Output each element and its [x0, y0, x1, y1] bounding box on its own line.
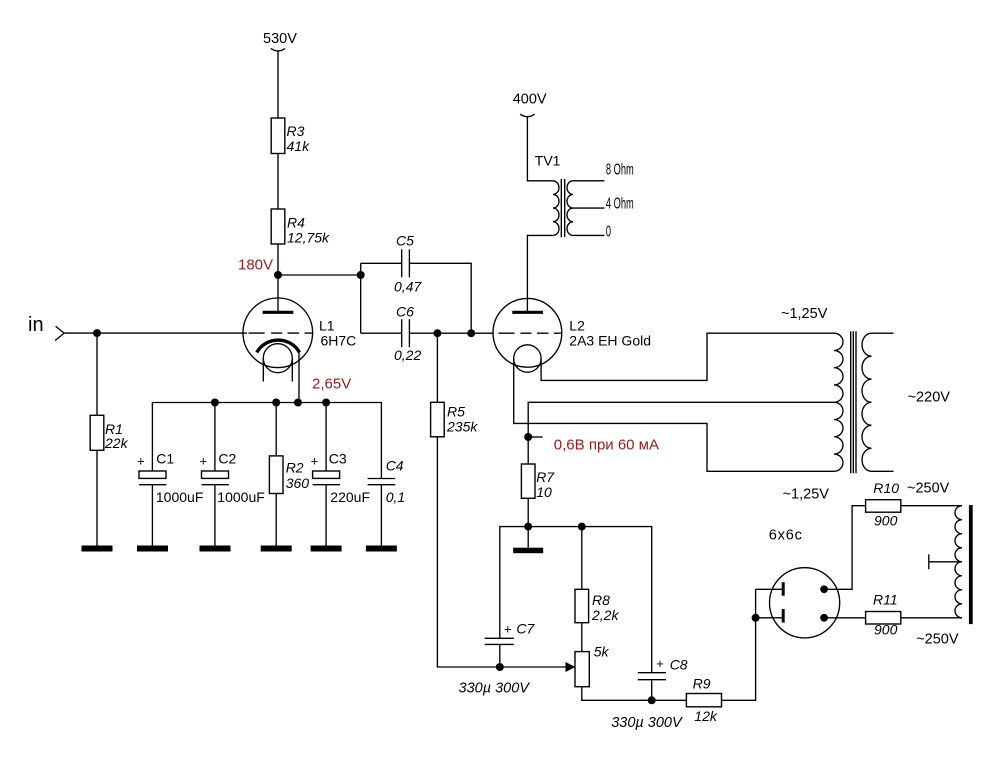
filament transformer primary winding: [862, 333, 872, 471]
svg-text:L2: L2: [569, 318, 585, 334]
svg-text:8 Ohm: 8 Ohm: [606, 160, 634, 178]
wire bottom diode left: [756, 617, 784, 619]
transformer TV1 core: [561, 179, 564, 237]
node C8 bottom: [648, 696, 656, 704]
svg-text:R9: R9: [693, 676, 711, 692]
svg-text:C4: C4: [386, 458, 404, 474]
filament transformer secondary winding: [834, 333, 843, 471]
resistor R5: [431, 402, 479, 437]
wire tap 0: [573, 234, 604, 236]
svg-text:~220V: ~220V: [908, 390, 951, 406]
node 180V junction: [274, 271, 282, 279]
wire node to R7: [527, 437, 529, 464]
wire R9 to rectifier node: [722, 589, 756, 700]
svg-text:5k: 5k: [594, 644, 610, 660]
svg-text:R7: R7: [536, 469, 555, 485]
capacitor C4: [368, 458, 406, 506]
capacitor C3: [311, 451, 370, 506]
ground R2: [261, 546, 292, 552]
wire R2 to ground: [275, 494, 277, 546]
input terminal in: [28, 314, 64, 341]
svg-text:6x6c: 6x6c: [769, 528, 803, 544]
wire primary bottom stub: [872, 470, 894, 472]
node R7 rail: [524, 523, 532, 531]
svg-text:+: +: [504, 622, 512, 637]
svg-text:+: +: [311, 454, 319, 469]
svg-text:400V: 400V: [513, 92, 547, 108]
svg-text:+: +: [137, 454, 145, 469]
wire R1 to ground: [96, 450, 98, 545]
center tap end bar: [928, 554, 930, 569]
svg-text:2,65V: 2,65V: [312, 376, 351, 393]
svg-text:2,2k: 2,2k: [591, 607, 619, 623]
svg-text:0,22: 0,22: [394, 347, 421, 363]
resistor R1: [90, 415, 128, 451]
svg-text:530V: 530V: [263, 31, 297, 47]
node R5 branch: [433, 329, 441, 337]
svg-text:330µ 300V: 330µ 300V: [611, 715, 683, 731]
wire 180V node to coupling caps: [278, 274, 361, 276]
wire center tap: [929, 561, 962, 563]
wire C3 to ground: [325, 485, 327, 546]
wire R7 to rail: [527, 498, 529, 526]
node at coupling cap branch: [357, 271, 365, 279]
ground C3: [311, 546, 342, 552]
node C5/C6 right rail junction: [467, 329, 475, 337]
wire center tap to R7 node: [528, 402, 835, 437]
svg-text:235k: 235k: [446, 419, 478, 435]
resistor R10: [866, 480, 901, 529]
wire R10 to winding top: [901, 505, 962, 507]
svg-text:0,6В при 60 мА: 0,6В при 60 мА: [554, 437, 659, 454]
capacitor C1: [137, 451, 203, 506]
svg-text:+: +: [200, 454, 208, 469]
wire R5 down to wiper line: [437, 437, 566, 667]
svg-text:2A3 EH Gold: 2A3 EH Gold: [569, 333, 651, 349]
svg-text:6H7C: 6H7C: [321, 333, 357, 349]
wire node label stub: [528, 436, 542, 438]
svg-text:in: in: [28, 314, 44, 336]
wire R4 to node 180V: [277, 244, 279, 275]
svg-text:~1,25V: ~1,25V: [783, 487, 830, 503]
wire bus to C2: [214, 403, 216, 472]
wire rail to R8: [581, 527, 583, 590]
wire 400V to TV1 primary: [527, 117, 553, 181]
node input / R1 junction: [93, 329, 101, 337]
wire cathode bus: [152, 403, 381, 479]
wire C6 rail left: [361, 332, 402, 334]
wiper arrowhead: [566, 662, 576, 672]
node R2 bus: [272, 399, 280, 407]
svg-text:R4: R4: [287, 215, 305, 231]
wire node to R5: [436, 333, 438, 402]
resistor R11: [866, 592, 901, 638]
resistor R3: [271, 118, 310, 154]
svg-text:R2: R2: [286, 460, 304, 476]
capacitor C8: [638, 656, 688, 680]
node C2 bus: [211, 399, 219, 407]
rectifier filament winding: [955, 506, 962, 618]
svg-text:12k: 12k: [694, 708, 718, 724]
svg-text:~250V: ~250V: [907, 481, 950, 497]
capacitor C2: [200, 451, 265, 506]
resistor R7: [521, 464, 555, 500]
rectifier tube 6x6c: [769, 528, 840, 638]
svg-text:1000uF: 1000uF: [217, 489, 264, 505]
svg-text:0,47: 0,47: [394, 279, 422, 295]
power terminal 400V: [513, 92, 547, 117]
wire R11 to winding bottom: [901, 617, 962, 619]
svg-text:330µ 300V: 330µ 300V: [459, 681, 531, 697]
svg-text:41k: 41k: [287, 138, 311, 154]
svg-text:R3: R3: [287, 123, 305, 139]
node rectifier left: [752, 614, 760, 622]
wire R8 to pot: [581, 623, 583, 652]
capacitor C5: [394, 233, 422, 295]
filament transformer core: [851, 331, 856, 473]
rectifier filament core: [969, 505, 973, 624]
svg-text:L1: L1: [319, 318, 335, 334]
svg-text:R10: R10: [873, 480, 899, 496]
power terminal 530V: [263, 31, 297, 51]
wire bias rail: [500, 527, 652, 673]
pin bottom diode right: [820, 614, 828, 622]
ground C2: [200, 546, 231, 552]
resistor R2: [269, 456, 309, 494]
wire primary top stub: [872, 332, 894, 334]
svg-text:C8: C8: [670, 657, 688, 673]
svg-text:360: 360: [286, 475, 310, 491]
wire L2 filament left leg: [514, 359, 834, 472]
wire TV1 primary bottom to L2 plate: [527, 235, 553, 312]
svg-text:R5: R5: [447, 404, 465, 420]
pin top diode right: [820, 585, 828, 593]
ground C4: [366, 546, 397, 552]
svg-text:~250V: ~250V: [916, 632, 959, 648]
wire 530V to R3: [277, 52, 279, 119]
svg-text:900: 900: [874, 513, 898, 529]
svg-text:C7: C7: [516, 621, 535, 637]
svg-text:R11: R11: [873, 592, 898, 608]
wire C5 top rail left: [361, 262, 402, 264]
wire C8 to node: [651, 680, 653, 701]
svg-text:+: +: [656, 656, 664, 671]
transformer TV1 secondary winding: [567, 181, 573, 236]
capacitor C6: [394, 304, 421, 364]
transformer TV1 primary winding: [553, 181, 559, 236]
wire C5 top rail right: [409, 263, 471, 333]
ground main: [513, 548, 543, 554]
wire bus to C3: [325, 403, 327, 472]
wire 180V node to L1 plate: [277, 275, 279, 312]
svg-text:C2: C2: [218, 451, 236, 467]
wire left rail of C5/C6 loop: [360, 263, 362, 333]
resistor R8: [575, 589, 619, 623]
svg-text:0: 0: [606, 222, 611, 240]
wire tap 8 Ohm: [573, 180, 604, 182]
node C7 wiper junction: [496, 663, 504, 671]
ground R1: [82, 546, 113, 552]
node R8 rail: [578, 523, 586, 531]
ground C1: [137, 546, 168, 552]
node R7 top: [524, 433, 532, 441]
svg-text:C3: C3: [329, 451, 347, 467]
wire input to L1 grid: [64, 332, 247, 334]
svg-text:0,1: 0,1: [386, 489, 405, 505]
resistor R9: [686, 676, 721, 725]
wire pot to bottom rail: [582, 687, 687, 701]
wire C7 to node: [499, 644, 501, 667]
wire C6 rail right to L2 grid: [409, 332, 493, 334]
wire bottom diode to R11: [824, 617, 866, 619]
svg-text:900: 900: [874, 622, 898, 638]
wire rail to ground: [527, 527, 529, 548]
triode L1: [243, 298, 356, 382]
svg-text:220uF: 220uF: [330, 489, 370, 505]
svg-text:C1: C1: [156, 451, 174, 467]
resistor R4: [271, 209, 330, 246]
wire C4 to ground: [380, 485, 382, 546]
svg-text:1000uF: 1000uF: [156, 489, 203, 505]
wire top diode left: [756, 588, 784, 590]
svg-text:TV1: TV1: [535, 153, 561, 169]
potentiometer 5k: [575, 644, 609, 687]
wire C1 to ground: [151, 485, 153, 546]
wire C2 to ground: [214, 485, 216, 546]
svg-text:C6: C6: [396, 304, 414, 320]
wire L2 filament right leg: [541, 333, 834, 380]
node cathode bus: [294, 399, 302, 407]
capacitor C7: [485, 621, 536, 645]
wire bus to R2: [275, 403, 277, 456]
wire tap 4 Ohm: [573, 207, 604, 209]
power triode L2: [493, 298, 651, 372]
svg-text:10: 10: [536, 484, 552, 500]
svg-text:12,75k: 12,75k: [287, 230, 330, 246]
wire L1 cathode to bus: [298, 351, 300, 403]
svg-text:~1,25V: ~1,25V: [781, 306, 828, 322]
wire top diode to R10: [824, 506, 866, 590]
svg-text:22k: 22k: [104, 435, 129, 451]
wire R3 to R4: [277, 154, 279, 210]
wire node to R1: [96, 333, 98, 415]
svg-text:R8: R8: [592, 592, 610, 608]
svg-text:180V: 180V: [238, 257, 273, 274]
svg-text:C5: C5: [396, 233, 414, 249]
svg-text:4 Ohm: 4 Ohm: [606, 194, 634, 212]
node C3 bus: [322, 399, 330, 407]
